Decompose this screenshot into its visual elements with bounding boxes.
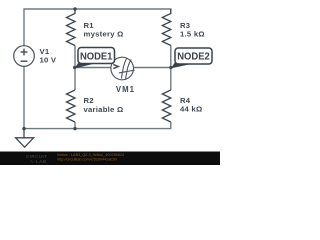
wire top horizontal net bbox=[24, 9, 171, 46]
wire R2 bottom lead to bottom net bbox=[74, 122, 76, 129]
ground bbox=[16, 129, 34, 148]
wire voltmeter right lead to NODE2 bbox=[133, 67, 171, 69]
svg-text:variable Ω: variable Ω bbox=[84, 105, 124, 114]
svg-text:http://circuitlab.com/c/5z9044: http://circuitlab.com/c/5z9044zab2N bbox=[57, 157, 117, 161]
voltage source V1 bbox=[14, 46, 35, 67]
watermark band bbox=[0, 152, 220, 166]
svg-text:VM1: VM1 bbox=[116, 85, 135, 94]
node NODE2 callout bbox=[171, 48, 212, 68]
resistor R2 bbox=[67, 90, 76, 122]
svg-text:mystery Ω: mystery Ω bbox=[84, 30, 124, 39]
svg-text:10 V: 10 V bbox=[40, 56, 57, 65]
wire left vertical lower (V1 minus terminal to bottom net) bbox=[23, 66, 25, 128]
resistor R1 bbox=[67, 9, 76, 46]
svg-text:NODE1: NODE1 bbox=[80, 51, 113, 62]
wire bottom horizontal net bbox=[24, 122, 171, 129]
resistor R4 bbox=[162, 90, 171, 122]
svg-text:Notice : LAB3_Q2.3_fixBus_4002: Notice : LAB3_Q2.3_fixBus_400256824 bbox=[57, 153, 124, 157]
svg-text:44 kΩ: 44 kΩ bbox=[180, 105, 202, 114]
svg-text:1.5 kΩ: 1.5 kΩ bbox=[180, 30, 205, 39]
wire NODE1 to voltmeter left lead bbox=[75, 67, 112, 69]
node NODE1 callout bbox=[75, 48, 115, 69]
wire NODE2 junction down to R4 top bbox=[170, 68, 172, 91]
resistor R3 bbox=[162, 9, 171, 46]
svg-text:NODE2: NODE2 bbox=[177, 51, 210, 62]
svg-text:∿⋅LAB: ∿⋅LAB bbox=[30, 159, 47, 164]
wire R3 bottom lead down to NODE2 junction bbox=[170, 46, 172, 68]
junction dot bottom left (V1 / ground / bottom net) bbox=[22, 127, 25, 130]
junction dot NODE1 bbox=[73, 66, 76, 69]
voltmeter VM1 bbox=[111, 57, 135, 80]
junction dot top (R1 / top net) bbox=[73, 7, 76, 10]
junction dot bottom middle (R2 / bottom net) bbox=[73, 127, 76, 130]
junction dot NODE2 bbox=[169, 66, 172, 69]
wire NODE1 junction down to R2 top bbox=[74, 68, 76, 91]
wire R1 bottom lead down to NODE1 junction bbox=[74, 46, 76, 68]
svg-text:R2: R2 bbox=[84, 96, 94, 105]
